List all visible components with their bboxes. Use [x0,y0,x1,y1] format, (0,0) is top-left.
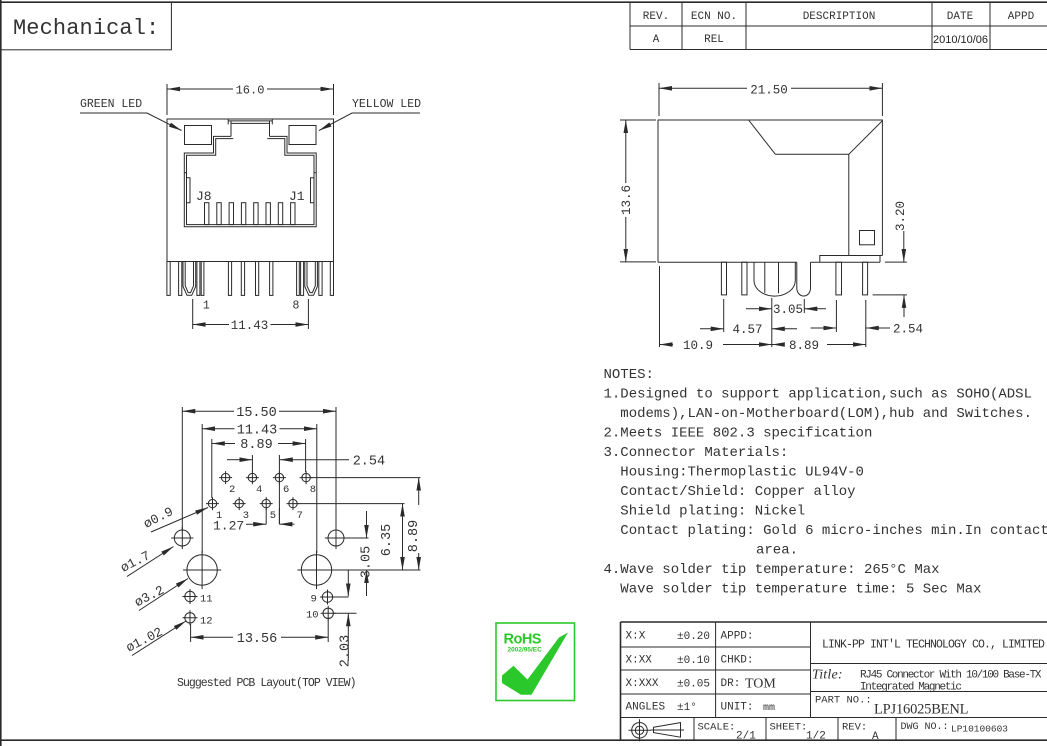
revision table [630,2,1047,50]
svg-text:7: 7 [297,510,303,522]
svg-text:GREEN LED: GREEN LED [80,98,142,111]
dim 11.43 [202,424,317,553]
dim 8.89 right vertical [418,478,420,505]
svg-text:4.57: 4.57 [732,323,762,337]
svg-text:TOM: TOM [745,677,776,692]
svg-text:ECN NO.: ECN NO. [691,11,737,23]
dim 4.57 [723,299,725,332]
dim 2.03 [347,570,349,597]
pads 9 10 [320,590,336,621]
pins [721,262,867,295]
svg-text:REL: REL [704,34,724,46]
svg-text:3.Connector Materials:: 3.Connector Materials: [604,445,789,461]
TITLE BLOCK [621,622,1047,743]
svg-text:Contact/Shield: Copper alloy: Contact/Shield: Copper alloy [620,484,855,500]
dim 2.54 top [252,455,279,524]
svg-text:DR:: DR: [721,678,741,690]
Mechanical title box [1,2,172,50]
dim 15.50 [182,407,336,530]
svg-text:modems),LAN-on-Motherboard(LOM: modems),LAN-on-Motherboard(LOM),hub and … [620,406,1032,422]
svg-text:LP10100603: LP10100603 [951,724,1008,735]
dim 11.43 [193,299,309,329]
inner bevel [749,120,883,256]
dim 8.89 [212,439,306,498]
svg-text:1.Designed to support applicat: 1.Designed to support application,such a… [604,387,1032,403]
svg-text:1/2: 1/2 [806,731,826,743]
LED windows [185,126,212,145]
svg-text:2.03: 2.03 [339,635,354,667]
svg-text:A: A [653,34,660,46]
svg-text:DATE: DATE [947,11,974,23]
svg-text:±0.20: ±0.20 [677,631,710,643]
svg-text:±0.05: ±0.05 [677,679,710,691]
svg-text:APPD:: APPD: [721,631,754,643]
SIDE VIEW [620,83,923,353]
svg-text:2.54: 2.54 [353,455,385,470]
legs [167,262,334,296]
dim 10.9 [659,266,661,347]
contact slots [205,203,296,225]
projection symbol [632,723,648,739]
pin7 line right [297,503,404,505]
svg-text:2: 2 [229,484,235,496]
PCB LAYOUT VIEW [118,406,422,690]
big circle line right [332,569,421,571]
cavity inner [187,139,315,225]
svg-text:J1: J1 [289,189,305,204]
svg-text:NOTES:: NOTES: [604,367,654,383]
svg-text:PART NO.:: PART NO.: [815,695,872,707]
svg-text:ø1.02: ø1.02 [124,624,166,655]
svg-text:Contact plating: Gold 6 micro-: Contact plating: Gold 6 micro-inches min… [620,523,1047,539]
svg-text:J8: J8 [196,189,212,204]
svg-text:8.89: 8.89 [240,438,272,453]
dim 21.50 [659,83,882,116]
dim 6.35 [402,504,404,520]
svg-text:REV.: REV. [643,11,669,23]
small square [860,231,875,245]
top tab [228,119,272,136]
medium circles [171,527,347,549]
svg-text:Integrated Magnetic: Integrated Magnetic [860,682,961,694]
svg-text:2.Meets IEEE 802.3 specificati: 2.Meets IEEE 802.3 specification [604,426,873,442]
dim 13.6 [620,120,656,262]
shield tab right [305,262,318,296]
NOTES [604,367,1047,598]
svg-text:11.43: 11.43 [237,423,278,438]
svg-text:8.89: 8.89 [789,339,819,353]
svg-text:RJ45 Connector With 10/100 Bas: RJ45 Connector With 10/100 Base-TX [860,670,1042,682]
svg-text:APPD: APPD [1008,11,1035,23]
svg-text:2002/95/EC: 2002/95/EC [508,647,543,654]
svg-text:ø0.9: ø0.9 [141,504,176,532]
dim 16.0 [167,84,334,115]
svg-text:SCALE:: SCALE: [698,722,736,734]
svg-text:X:XX: X:XX [626,655,653,667]
svg-text:±1°: ±1° [677,702,697,714]
shield tab left [183,262,196,296]
svg-text:Shield plating: Nickel: Shield plating: Nickel [620,504,805,520]
svg-text:9: 9 [311,594,317,606]
svg-text:16.0: 16.0 [236,84,265,98]
svg-text:Wave solder tip temperature ti: Wave solder tip temperature time: 5 Sec … [620,582,981,598]
dim 13.56 [191,620,329,642]
svg-text:11.43: 11.43 [231,319,269,333]
svg-text:15.50: 15.50 [236,406,277,421]
svg-text:8: 8 [310,484,316,496]
svg-text:UNIT:: UNIT: [721,702,754,714]
svg-text:11: 11 [200,594,213,606]
svg-text:DWG NO.:: DWG NO.: [901,722,949,733]
pin bottom ext [873,294,907,296]
svg-text:X:X: X:X [626,631,646,643]
pads row odd [206,497,300,510]
svg-text:Housing:Thermoplastic UL94V-0: Housing:Thermoplastic UL94V-0 [620,465,864,481]
svg-text:mm: mm [763,703,775,714]
svg-text:10.9: 10.9 [683,339,713,353]
dim 8.89 [772,344,781,346]
U pin [797,262,811,296]
dim 1.27 [266,508,279,524]
RoHS logo [496,623,575,701]
svg-text:X:XXX: X:XXX [626,678,659,690]
svg-text:13.6: 13.6 [620,185,634,215]
svg-text:10: 10 [306,610,319,622]
svg-text:4: 4 [256,484,262,496]
svg-text:Title:: Title: [812,668,843,683]
svg-text:13.56: 13.56 [237,632,278,647]
big circles [183,551,336,589]
svg-text:Suggested PCB Layout(TOP VIEW): Suggested PCB Layout(TOP VIEW) [177,677,356,690]
svg-text:±0.10: ±0.10 [677,655,710,667]
svg-text:3.05: 3.05 [360,546,375,578]
svg-text:6.35: 6.35 [380,524,395,556]
pads row even [219,471,313,484]
svg-text:5: 5 [270,510,276,522]
dim 2.54 [836,300,865,347]
svg-text:LINK-PP INT'L TECHNOLOGY CO.,: LINK-PP INT'L TECHNOLOGY CO., LIMITED [822,639,1045,652]
dim 3.05 [366,511,368,538]
svg-text:6: 6 [283,484,289,496]
svg-text:YELLOW LED: YELLOW LED [352,98,421,111]
med circle line right [344,537,369,539]
svg-text:12: 12 [200,616,213,628]
contact comb [754,262,795,296]
svg-text:21.50: 21.50 [750,84,788,98]
pin8 line right [310,477,420,479]
svg-text:1.27: 1.27 [213,519,244,534]
flange [820,256,883,263]
svg-text:DESCRIPTION: DESCRIPTION [803,11,876,23]
cavity notches [184,173,316,203]
body [167,119,334,262]
svg-text:8: 8 [293,300,300,313]
svg-text:8.89: 8.89 [407,520,422,552]
pads 11 12 [183,589,198,625]
svg-text:REV:: REV: [842,722,867,734]
svg-text:3.20: 3.20 [894,201,908,231]
cavity outer [184,136,316,226]
svg-text:SHEET:: SHEET: [770,722,808,734]
dim 3.05 [772,298,805,347]
body outline [658,120,882,262]
svg-text:CHKD:: CHKD: [721,655,754,667]
svg-text:4.Wave solder tip temperature:: 4.Wave solder tip temperature: 265°C Max [604,562,940,578]
svg-text:2.54: 2.54 [893,322,923,336]
svg-text:Mechanical:: Mechanical: [13,16,159,41]
svg-text:LPJ16025BENL: LPJ16025BENL [874,702,968,718]
svg-text:3.05: 3.05 [773,303,803,317]
svg-text:ANGLES: ANGLES [626,702,666,714]
svg-text:A: A [872,731,879,743]
svg-text:RoHS: RoHS [504,632,542,648]
svg-text:2/1: 2/1 [736,731,756,743]
svg-text:area.: area. [756,543,798,559]
FRONT VIEW [80,84,421,334]
svg-text:1: 1 [203,300,210,313]
svg-text:2010/10/06: 2010/10/06 [933,34,988,46]
